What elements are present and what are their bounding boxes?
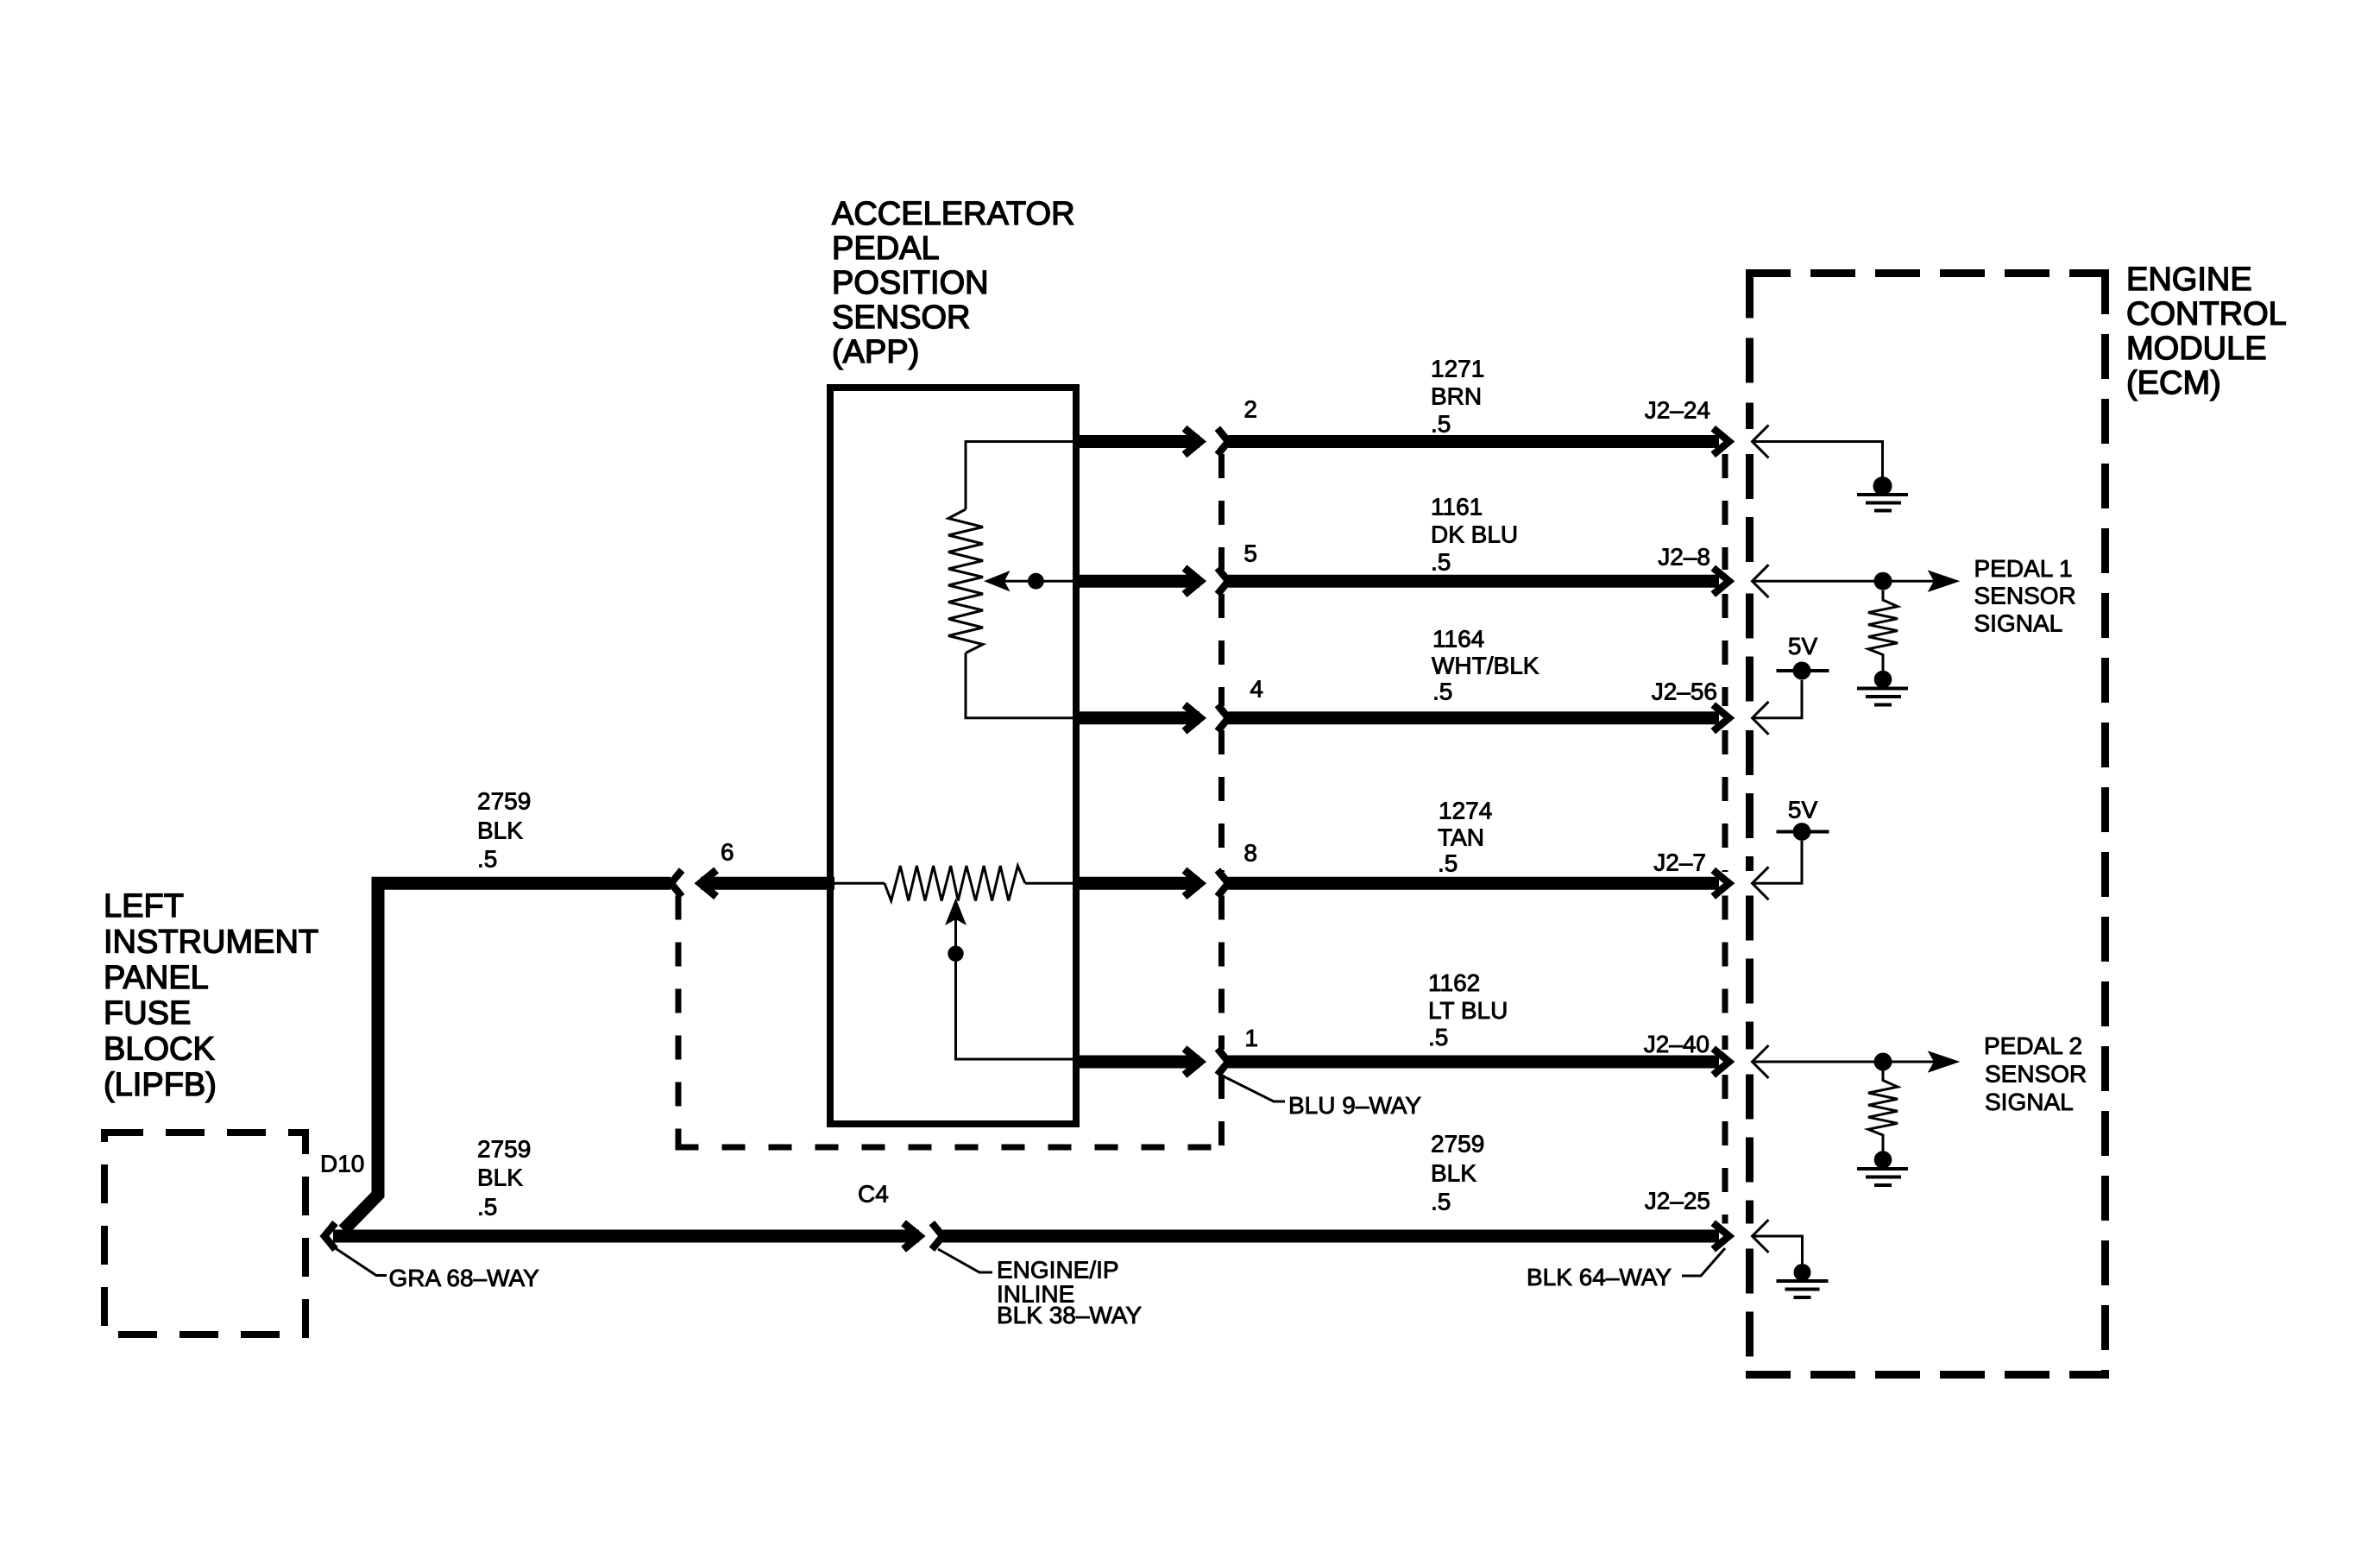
wire 6 C4 chevron bbox=[932, 1223, 943, 1250]
wire 1 pin2 segment APP to connector bbox=[1078, 435, 1199, 448]
potentiometer R2 left lead from pin 8 bbox=[832, 882, 885, 885]
svg-text:FUSE: FUSE bbox=[104, 995, 191, 1032]
svg-text:J2–56: J2–56 bbox=[1652, 678, 1717, 705]
pedal 1 signal junction dot bbox=[1874, 572, 1892, 590]
svg-text:1271: 1271 bbox=[1431, 356, 1484, 382]
wire 2 pin5 segment APP to connector bbox=[1078, 575, 1199, 588]
wire 5 connector chevron bbox=[1218, 1049, 1229, 1076]
ECM module box U2 left edge segments bbox=[1746, 274, 1754, 430]
wire 2759 BLK riser from wire 4 to D10 bbox=[343, 877, 378, 1230]
svg-text:INSTRUMENT: INSTRUMENT bbox=[104, 924, 318, 960]
svg-text:2: 2 bbox=[1244, 396, 1257, 423]
svg-text:J2–25: J2–25 bbox=[1645, 1188, 1710, 1215]
wire 4 J2-7 terminal arrow bbox=[1713, 870, 1729, 897]
wire 2 connector chevron bbox=[1218, 568, 1229, 595]
leader to BLK 64-WAY label bbox=[1682, 1248, 1725, 1276]
svg-text:5: 5 bbox=[1244, 540, 1257, 567]
svg-text:BLK: BLK bbox=[477, 1164, 523, 1191]
potentiometer R1 wiper line to pin 5 bbox=[1004, 580, 1073, 583]
svg-text:6: 6 bbox=[721, 839, 734, 866]
pedal 2 signal junction dot bbox=[1874, 1053, 1892, 1071]
svg-text:ENGINE: ENGINE bbox=[2126, 262, 2252, 298]
svg-text:J2–8: J2–8 bbox=[1658, 544, 1710, 571]
ECM 5V rail bar 1 bbox=[1777, 669, 1829, 672]
svg-text:.5: .5 bbox=[1428, 1024, 1448, 1051]
svg-text:LT BLU: LT BLU bbox=[1428, 997, 1508, 1024]
ground G1 bars bbox=[1857, 493, 1908, 496]
ECM J2-56 pin arrow bbox=[1753, 702, 1769, 735]
svg-text:CONTROL: CONTROL bbox=[2126, 296, 2287, 332]
svg-text:ACCELERATOR: ACCELERATOR bbox=[832, 196, 1075, 232]
pedal 1 signal arrowhead bbox=[1928, 570, 1961, 592]
svg-text:BLK: BLK bbox=[1431, 1160, 1476, 1187]
wire 6 J2-25 terminal arrow bbox=[1713, 1223, 1729, 1250]
wire 3 pin4 segment APP to connector bbox=[1078, 711, 1199, 724]
wire 4 segment from riser corner to connector 6 bbox=[372, 877, 671, 890]
ECM module box U2 right edge bbox=[2101, 269, 2109, 1379]
potentiometer R2 wiper junction dot bbox=[948, 946, 963, 962]
ECM resistor R3 leads and element bbox=[1868, 590, 1898, 671]
wire 2 circuit 1161 DK BLU segment bbox=[1228, 575, 1719, 588]
ECM J2-40 pin arrow bbox=[1753, 1045, 1769, 1078]
potentiometer R2 wiper line to pin 1 bbox=[956, 919, 1074, 1059]
svg-text:PANEL: PANEL bbox=[104, 960, 209, 996]
svg-text:4: 4 bbox=[1250, 676, 1263, 703]
ECM pedal 2 signal line bbox=[1753, 1061, 1936, 1063]
ground G2 bars bbox=[1857, 687, 1908, 691]
wire 3 connector terminal arrow bbox=[1185, 705, 1201, 732]
ECM J2-7 pin arrow bbox=[1753, 867, 1769, 899]
ECM pedal 1 signal line bbox=[1753, 580, 1936, 583]
svg-text:D10: D10 bbox=[320, 1151, 364, 1177]
svg-text:.5: .5 bbox=[1431, 411, 1451, 438]
wire 6 circuit 2759 BLK segment C4 to ECM bbox=[942, 1230, 1719, 1243]
svg-text:(LIPFB): (LIPFB) bbox=[104, 1067, 217, 1103]
svg-text:SENSOR: SENSOR bbox=[832, 300, 970, 336]
leader to GRA 68-WAY label bbox=[331, 1246, 387, 1276]
pedal 2 signal arrowhead bbox=[1928, 1051, 1961, 1073]
svg-text:SIGNAL: SIGNAL bbox=[1985, 1089, 2074, 1115]
ECM 5V rail bar 2 bbox=[1777, 830, 1829, 834]
svg-text:BLK: BLK bbox=[477, 817, 523, 844]
ECM module box U2 bottom edge bbox=[1746, 1371, 2109, 1379]
wire 1 connector terminal arrow bbox=[1185, 428, 1201, 455]
ECM 5V feed trace to J2-56 bbox=[1753, 680, 1803, 718]
connector BLU 9-WAY dashed line segments bbox=[1218, 454, 1225, 570]
wire 3 circuit 1164 WHT/BLK segment bbox=[1228, 711, 1719, 724]
svg-text:GRA 68–WAY: GRA 68–WAY bbox=[389, 1265, 540, 1291]
svg-text:BLU 9–WAY: BLU 9–WAY bbox=[1288, 1092, 1421, 1119]
wire 3 J2-56 terminal arrow bbox=[1713, 705, 1729, 732]
svg-text:BLOCK: BLOCK bbox=[104, 1032, 215, 1068]
ground dot G1 bbox=[1873, 476, 1892, 495]
svg-text:1274: 1274 bbox=[1439, 798, 1492, 824]
wire 6 circuit 2759 BLK segment LIPFB to C4 bbox=[333, 1230, 919, 1243]
potentiometer R2 resistive element bbox=[885, 866, 1025, 901]
leader to ENGINE/IP INLINE label bbox=[938, 1249, 992, 1272]
svg-text:PEDAL: PEDAL bbox=[832, 230, 940, 267]
ground G4 bars bbox=[1777, 1279, 1829, 1283]
ECM 5V feed trace to J2-7 bbox=[1753, 841, 1803, 883]
potentiometer R1 wiper junction dot bbox=[1028, 573, 1044, 590]
ECM J2-25 pin arrow bbox=[1753, 1220, 1769, 1253]
wire 5 pin1 segment APP to connector bbox=[1078, 1056, 1199, 1069]
svg-text:1162: 1162 bbox=[1428, 969, 1480, 996]
svg-text:MODULE: MODULE bbox=[2126, 331, 2267, 367]
connector BLK 64-WAY dashed line segments bbox=[1722, 454, 1728, 570]
potentiometer R1 wiper arrowhead bbox=[984, 571, 1011, 591]
svg-text:WHT/BLK: WHT/BLK bbox=[1432, 653, 1539, 679]
svg-text:J2–40: J2–40 bbox=[1644, 1031, 1709, 1057]
ECM module box U2 (dashed) top edge bbox=[1746, 269, 2109, 277]
LIPFB fuse block box (dashed) bbox=[104, 1133, 305, 1335]
svg-text:ENGINE/IP: ENGINE/IP bbox=[997, 1257, 1119, 1284]
ECM resistor R4 leads and element bbox=[1868, 1071, 1898, 1152]
wire 4 connector 6 terminal arrow bbox=[701, 870, 717, 897]
ECM J2-24 pin arrow bbox=[1753, 426, 1769, 458]
svg-text:1161: 1161 bbox=[1431, 494, 1483, 521]
ground dot G2 bbox=[1874, 671, 1892, 689]
svg-text:.5: .5 bbox=[1431, 1189, 1451, 1215]
svg-text:BLK 38–WAY: BLK 38–WAY bbox=[997, 1302, 1142, 1328]
wire 1 connector chevron bbox=[1218, 428, 1229, 455]
ECM 5V rail dot 1 bbox=[1793, 662, 1811, 680]
svg-text:.5: .5 bbox=[477, 846, 497, 873]
svg-text:2759: 2759 bbox=[1431, 1131, 1484, 1158]
connector box dashed bottom edge bbox=[676, 1145, 1225, 1151]
wire 1 J2-24 terminal arrow bbox=[1713, 428, 1729, 455]
wire 5 circuit 1162 LT BLU segment bbox=[1228, 1056, 1719, 1069]
svg-text:SIGNAL: SIGNAL bbox=[1974, 610, 2063, 637]
svg-text:5V: 5V bbox=[1788, 797, 1818, 824]
ground dot G3 bbox=[1874, 1151, 1892, 1169]
ECM J2-8 pin arrow bbox=[1753, 565, 1769, 597]
svg-text:1: 1 bbox=[1244, 1025, 1258, 1051]
potentiometer R1 top lead to pin 2 bbox=[966, 442, 1073, 510]
wire 5 connector terminal arrow bbox=[1185, 1049, 1201, 1076]
svg-text:(ECM): (ECM) bbox=[2126, 365, 2221, 401]
wire 6 C4 terminal arrow bbox=[904, 1223, 920, 1250]
potentiometer R1 bottom lead to pin 4 bbox=[966, 653, 1073, 718]
wire 4 connector terminal arrow bbox=[1185, 870, 1201, 897]
connector 6 dashed line bbox=[676, 896, 682, 1151]
svg-text:(APP): (APP) bbox=[832, 334, 919, 370]
leader to BLU 9-WAY label bbox=[1224, 1076, 1285, 1101]
svg-text:.5: .5 bbox=[477, 1194, 497, 1221]
wire 4 pin8 segment APP to connector bbox=[1078, 877, 1199, 890]
ground dot G4 bbox=[1794, 1264, 1811, 1281]
svg-text:1164: 1164 bbox=[1432, 626, 1484, 653]
svg-text:J2–7: J2–7 bbox=[1653, 849, 1706, 876]
potentiometer R1 resistive element bbox=[948, 509, 983, 653]
svg-text:DK BLU: DK BLU bbox=[1431, 521, 1518, 548]
ECM 5V rail dot 2 bbox=[1793, 823, 1811, 841]
svg-text:5V: 5V bbox=[1788, 633, 1818, 659]
wire 2 J2-8 terminal arrow bbox=[1713, 568, 1729, 595]
wire 4 segment into APP box bbox=[701, 877, 834, 890]
ECM J2-25 ground trace bbox=[1753, 1236, 1803, 1264]
wire 3 connector chevron bbox=[1218, 705, 1229, 732]
wire 2 connector terminal arrow bbox=[1185, 568, 1201, 595]
svg-text:2759: 2759 bbox=[477, 788, 531, 815]
svg-text:SENSOR: SENSOR bbox=[1985, 1061, 2087, 1088]
svg-text:.5: .5 bbox=[1438, 850, 1458, 877]
svg-text:8: 8 bbox=[1244, 840, 1257, 867]
svg-text:POSITION: POSITION bbox=[832, 265, 989, 301]
svg-text:BRN: BRN bbox=[1431, 383, 1482, 410]
svg-text:PEDAL 2: PEDAL 2 bbox=[1984, 1032, 2082, 1059]
potentiometer R2 right lead bbox=[1025, 882, 1073, 885]
svg-text:LEFT: LEFT bbox=[104, 888, 184, 924]
APP sensor box U1 bbox=[830, 388, 1076, 1124]
svg-text:BLK 64–WAY: BLK 64–WAY bbox=[1527, 1264, 1672, 1290]
wire 1 circuit 1271 BRN segment bbox=[1228, 435, 1719, 448]
svg-text:C4: C4 bbox=[858, 1181, 889, 1208]
wire 4 connector chevron bbox=[1218, 870, 1229, 897]
wire 6 D10 terminal chevron bbox=[324, 1223, 336, 1250]
svg-text:.5: .5 bbox=[1432, 678, 1452, 705]
wire 4 connector 6 chevron bbox=[671, 870, 683, 897]
svg-text:.5: .5 bbox=[1431, 549, 1451, 576]
svg-text:2759: 2759 bbox=[477, 1136, 531, 1163]
svg-text:PEDAL 1: PEDAL 1 bbox=[1974, 555, 2073, 582]
svg-text:TAN: TAN bbox=[1438, 824, 1484, 851]
svg-text:SENSOR: SENSOR bbox=[1974, 583, 2076, 609]
ECM J2-24 ground trace bbox=[1753, 442, 1883, 478]
wire 4 circuit 1274 TAN segment bbox=[1228, 877, 1719, 890]
svg-text:J2–24: J2–24 bbox=[1645, 397, 1710, 424]
ground G3 bars bbox=[1857, 1167, 1908, 1171]
wire 5 J2-40 terminal arrow bbox=[1713, 1049, 1729, 1076]
potentiometer R2 wiper arrowhead bbox=[945, 899, 966, 926]
